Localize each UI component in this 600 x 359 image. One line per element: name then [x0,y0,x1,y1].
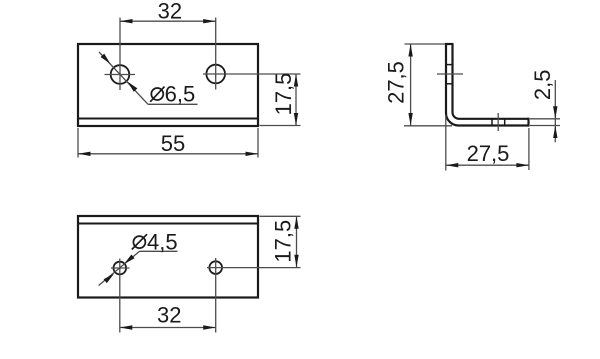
outline top view plate [78,44,258,126]
fold edge line top view [78,118,258,120]
arrowhead 17,5B top (up) [294,216,298,229]
extension line 27,5 bottom left [445,115,447,171]
L-profile inner contour [453,44,529,119]
hole H4 (right, Ø4.5) [209,261,222,274]
diameter symbol of Ø4,5 [133,236,145,248]
centerline horizontal-leg hole [497,113,499,131]
svg-text:2,5: 2,5 [530,70,555,101]
arrowhead 27,5L top [408,44,412,57]
arrowhead dim32B left [120,325,133,329]
arrowhead 17,5 bottom (down) [294,113,298,126]
svg-text:55: 55 [161,131,185,156]
svg-text:32: 32 [158,0,182,23]
leader arrowhead lower-left (points to hole edge) [104,274,114,283]
hole H3 (left, Ø4.5) [114,262,127,275]
extension line 27,5 left top [405,43,446,45]
svg-text:17,5: 17,5 [271,73,296,116]
dimension line 55 [78,153,258,155]
leader arrowhead upper-left (points to hole edge) [101,54,111,64]
centerline H2 horizontal (also ext. line of dim 17,5) [203,73,301,75]
arrowhead 27,5L bottom [408,113,412,126]
dimension line 32 bottom [120,327,216,329]
centerline H3 vertical (also ext. of dim 32 bottom) [119,259,121,333]
arrowhead dim32 right [203,19,216,23]
arrowhead 27,5B right [516,163,529,167]
svg-text:32: 32 [157,303,181,328]
centerline H3 horizontal [111,267,130,269]
centerline H4 vertical (also ext. of dim 32 bottom) [215,258,217,333]
arrowhead 2,5 lower (up) [553,126,557,139]
svg-text:27,5: 27,5 [467,141,510,166]
svg-text:4,5: 4,5 [147,230,178,255]
svg-text:17,5: 17,5 [270,220,295,263]
dimension line 2,5 [554,80,556,142]
extension line 27,5 left bottom [404,125,452,127]
leader arrowhead lower-right (points to hole edge) [128,82,138,92]
centerline vertical-leg hole [437,73,463,75]
centerline H2 vertical (also ext. line of dim 32) [215,18,217,90]
dimension line 17,5 (bottom view) [296,216,298,267]
arrowhead dim32B right [203,325,216,329]
L-profile outer contour [446,44,529,126]
extension line 55 right [257,128,259,158]
hole H2 (right, Ø6.5) [206,65,225,84]
extension line 17,5 bottom (top view) [260,125,301,127]
hole H1 (left, Ø6.5) [111,65,130,84]
diameter symbol of Ø6,5 [151,88,163,100]
arrowhead 17,5B bottom (down) [294,255,298,267]
hole edges in vertical leg [446,64,453,66]
leader line Ø4,5 [99,251,140,285]
arrowhead 2,5 upper (down) [553,106,557,119]
arrowhead 27,5B left [446,163,459,167]
arrowhead dim32 left [120,19,133,23]
leader line Ø6,5 [99,52,148,104]
dimension line 27,5 left [410,44,412,126]
extension line 27,5 bottom right [528,128,530,170]
leader underline Ø6,5 [148,103,198,105]
leader underline Ø4,5 [140,250,178,252]
L-profile top end cap [445,43,454,45]
extension line 17,5 top (bottom view) [260,215,301,217]
arrowhead dim55 left [78,152,91,156]
outline bottom view plate [78,216,258,298]
dimension line 27,5 bottom [446,164,529,166]
L-profile right end cap [527,118,529,127]
dimension line 17,5 (top view) [295,74,297,126]
hole edges in horizontal leg [491,119,493,126]
svg-text:6,5: 6,5 [165,82,196,107]
arrowhead 17,5 top (up) [294,74,298,87]
dimension line 32 top [120,20,216,22]
centerline H4 horizontal (also ext. of dim 17,5) [207,267,301,269]
extension lines 2,5 [530,118,560,120]
centerline H1 horizontal [105,74,136,76]
arrowhead dim55 right [246,152,259,156]
svg-text:27,5: 27,5 [383,61,408,104]
centerline H1 vertical (also ext. line of dim 32) [119,18,121,91]
leader arrowhead upper-right (points to hole edge) [124,255,134,264]
extension line 55 left [77,128,79,158]
fold edge line bottom view [78,223,258,225]
